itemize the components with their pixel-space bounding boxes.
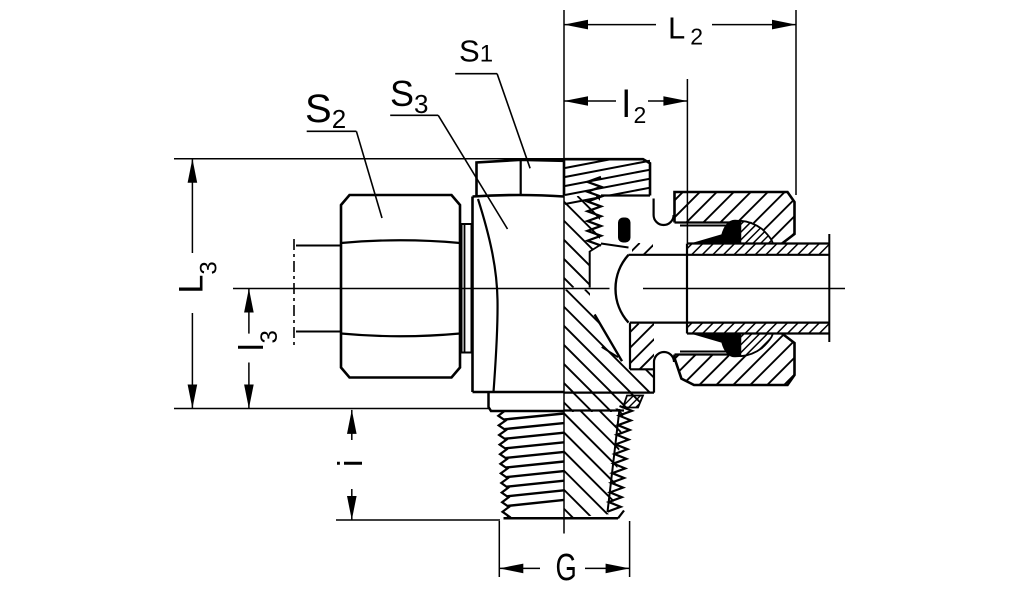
- dim L2 extension right: [795, 10, 797, 195]
- thread root step: [590, 245, 601, 252]
- top port hole wall: [589, 251, 591, 288]
- dim G extension right: [629, 521, 631, 577]
- nut S2 hex flat line upper: [341, 240, 460, 243]
- vertical axis line: [563, 10, 565, 534]
- body top face: [473, 195, 565, 197]
- tube break end right: [828, 234, 830, 342]
- dim i line and arrows: [351, 410, 353, 440]
- washer ring: [462, 224, 472, 353]
- label S1 leader: [455, 73, 497, 75]
- dim L3 extension bottom: [174, 408, 489, 410]
- stud thread zigzag right section: [608, 406, 632, 512]
- dim i extension bottom: [336, 519, 500, 521]
- nut S2 hex flat line lower: [341, 334, 460, 337]
- dim G extension left: [498, 521, 500, 577]
- body block left edge: [471, 197, 474, 393]
- ferrule bottom black part: [693, 334, 741, 357]
- dim L3 extension top: [174, 158, 564, 160]
- dim L3 line and arrows: [191, 159, 193, 253]
- tube end face: [686, 244, 688, 334]
- thread runout to bore: [601, 244, 629, 248]
- tube OD top: [687, 242, 829, 244]
- body outer edge below bore: [629, 323, 631, 370]
- stud thread crest zigzag left: [498, 411, 509, 518]
- right nut outline: [675, 192, 795, 244]
- bore top line: [629, 254, 830, 256]
- nut S2 outline: [341, 195, 460, 378]
- plug head section block: [564, 159, 650, 195]
- label S3 leader: [390, 114, 438, 116]
- dim l2 line and arrows: [564, 100, 616, 102]
- svg-text:G: G: [556, 547, 577, 589]
- nut bore lip lines: [675, 221, 735, 223]
- stud thread root line right: [608, 409, 620, 512]
- stud bottom face: [504, 517, 619, 520]
- gap slot bottom: [654, 352, 674, 393]
- dim l2 extension right: [686, 79, 688, 243]
- bore bottom line: [630, 322, 829, 324]
- stud collar: [489, 392, 565, 411]
- tube phantom outline top: [296, 245, 341, 247]
- bore end arc: [615, 255, 628, 323]
- body bottom face: [473, 391, 565, 394]
- label S2 leader: [307, 130, 357, 132]
- body sphere arc: [478, 199, 498, 392]
- ferrule top black part: [693, 221, 741, 244]
- tube OD bottom: [687, 332, 829, 334]
- stud thread lines: [504, 414, 564, 420]
- plug hex S1 left half: [477, 160, 565, 196]
- dim l3 line and arrows: [248, 289, 250, 334]
- tube phantom centerline left: [293, 239, 295, 345]
- dim L2 line and arrows: [564, 24, 656, 26]
- gap slot top: [654, 199, 674, 226]
- seal blob top port: [618, 218, 631, 243]
- body cone edge: [595, 315, 622, 362]
- svg-text:i: i: [332, 459, 370, 467]
- top port thread zigzag: [588, 177, 602, 246]
- tube phantom outline bottom: [296, 331, 341, 333]
- horizontal centerline: [233, 288, 610, 290]
- dim G line and arrows: [499, 567, 540, 569]
